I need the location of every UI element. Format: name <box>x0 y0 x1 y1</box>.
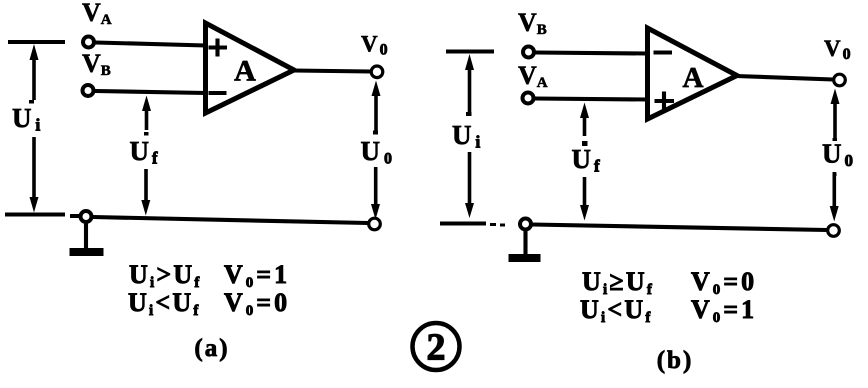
wire VA to op-amp + input (b) <box>535 99 648 100</box>
terminal VA (a) <box>83 37 94 48</box>
speck above Ui (a) <box>29 100 34 104</box>
svg-text:Ui<Uf: Ui<Uf <box>580 295 653 326</box>
dimension arrow Ui upper (a) <box>32 58 36 100</box>
dimension arrow U0 lower (b) <box>832 172 836 207</box>
op-amp + pin mark (b) <box>655 92 675 111</box>
svg-text:Ui≥Uf: Ui≥Uf <box>582 267 654 298</box>
op-amp - pin mark (a) <box>209 91 227 95</box>
dimension Ui bottom bar (a) <box>5 215 79 217</box>
dimension arrow Uf lower (a) <box>144 169 148 202</box>
svg-text:VA: VA <box>82 0 112 28</box>
wire bottom rail (b) <box>532 225 827 231</box>
terminal V0 (b) <box>834 74 846 86</box>
wire VB to op-amp - input (a) <box>95 91 206 93</box>
terminal VA (b) <box>523 93 534 104</box>
svg-text:Ui>Uf: Ui>Uf <box>129 260 202 291</box>
dimension arrow U0 upper (a) <box>374 94 378 133</box>
op-amp A (b) <box>648 28 738 119</box>
svg-text:A: A <box>234 55 256 88</box>
dimension arrow Ui lower (a) <box>32 137 36 199</box>
wire op-amp output to V0 (b) <box>736 76 833 80</box>
terminal VB (b) <box>523 47 534 58</box>
svg-text:2: 2 <box>427 327 446 369</box>
wire op-amp output to V0 (a) <box>293 71 371 72</box>
terminal bottom-right (b) <box>828 225 840 237</box>
dimension arrow U0 upper (b) <box>833 102 837 138</box>
dimension Ui top bar (a) <box>8 40 65 44</box>
svg-text:V0=0: V0=0 <box>691 267 757 298</box>
speck above Uf (b) <box>582 141 588 146</box>
svg-text:A: A <box>683 62 704 94</box>
svg-text:VA: VA <box>518 61 548 91</box>
wire VB to op-amp - input (b) <box>536 53 649 54</box>
svg-text:V0: V0 <box>361 32 388 59</box>
dimension Ui top bar (b) <box>446 49 494 53</box>
svg-text:(a): (a) <box>194 335 229 362</box>
terminal ground-left (a) <box>81 211 92 222</box>
terminal ground-left (b) <box>520 219 531 230</box>
svg-text:V0=1: V0=1 <box>691 295 757 326</box>
figure number circle <box>413 323 460 370</box>
svg-text:U0: U0 <box>361 136 393 168</box>
op-amp - pin mark (b) <box>654 50 673 54</box>
svg-text:VB: VB <box>82 49 111 79</box>
dimension arrow Ui lower (b) <box>468 152 472 205</box>
speck above Ui (b) <box>466 112 472 116</box>
wire VA to op-amp + input (a) <box>96 43 207 46</box>
ground (b) <box>523 231 527 255</box>
op-amp A (a) <box>206 23 295 113</box>
svg-text:V0=0: V0=0 <box>224 288 290 319</box>
svg-text:V0=1: V0=1 <box>224 260 290 291</box>
ground (a) <box>84 224 88 252</box>
dimension arrow Uf upper (b) <box>583 116 587 136</box>
svg-text:Uf: Uf <box>572 144 601 176</box>
terminal V0 (a) <box>371 66 383 78</box>
speck below U0 (b) <box>833 173 837 177</box>
terminal VB (a) <box>83 85 94 96</box>
dimension arrow Uf upper (a) <box>145 109 149 130</box>
speck above U0 (a) <box>373 131 378 135</box>
svg-text:Ui: Ui <box>452 120 481 152</box>
svg-text:Ui<Uf: Ui<Uf <box>128 288 201 319</box>
svg-text:U0: U0 <box>822 139 853 171</box>
svg-text:VB: VB <box>518 8 547 38</box>
speck above Uf (a) <box>144 132 149 136</box>
dimension arrow Ui upper (b) <box>468 68 472 114</box>
speck above U0 (b) <box>833 138 838 141</box>
svg-text:Uf: Uf <box>130 136 159 168</box>
svg-text:V0: V0 <box>824 36 851 63</box>
svg-text:(b): (b) <box>657 347 694 374</box>
op-amp + pin mark (a) <box>209 39 228 57</box>
svg-text:Ui: Ui <box>12 103 41 135</box>
terminal bottom-right (a) <box>369 218 381 230</box>
dimension arrow U0 lower (a) <box>374 167 378 205</box>
wire bottom rail (a) <box>93 217 368 223</box>
dimension Ui bottom bar (b) <box>440 221 486 225</box>
dimension arrow Uf lower (b) <box>583 177 587 207</box>
